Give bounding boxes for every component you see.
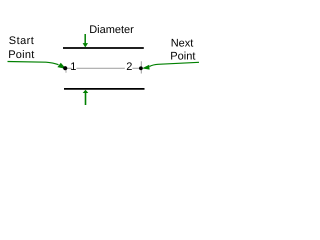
white box under digit 2 [125, 62, 133, 72]
left leader arrowhead [57, 63, 66, 69]
gray construction line between points 1 and 2 [66, 67, 141, 69]
svg-text:Point: Point [8, 49, 34, 61]
green down arrow (diameter pointer, top) [83, 34, 88, 48]
green up arrow (diameter pointer, bottom) [83, 90, 89, 105]
svg-text:Diameter: Diameter [89, 24, 134, 36]
left leader wire (Start Point -> 1) [8, 62, 59, 65]
right leader arrowhead [142, 65, 150, 70]
top line of slot [63, 47, 144, 49]
svg-text:1: 1 [70, 61, 76, 73]
svg-text:2: 2 [126, 61, 132, 73]
svg-text:Start: Start [9, 35, 34, 47]
svg-text:Point: Point [170, 51, 195, 63]
bottom line of slot [64, 88, 145, 90]
svg-text:Next: Next [171, 37, 194, 49]
crosshair vertical at point 1 [65, 69, 67, 73]
white box under digit 1 [72, 62, 77, 72]
black dot at point 1 [63, 66, 67, 70]
crosshair vertical at point 2 [140, 61, 142, 73]
black dot at point 2 [139, 66, 143, 70]
right leader wire (Next Point -> 2) [150, 62, 200, 66]
